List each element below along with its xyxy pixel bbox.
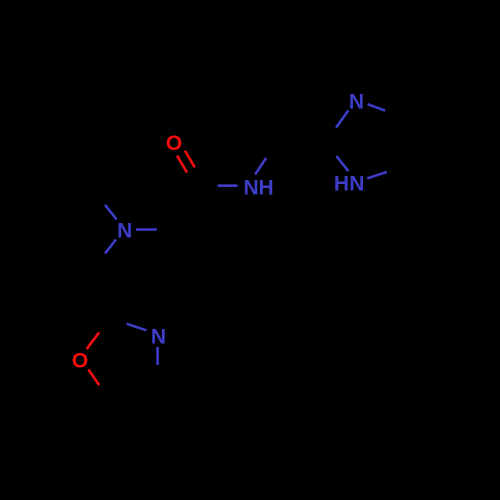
bond amide N - CH2 (blue half) bbox=[255, 158, 266, 175]
svg-text:N: N bbox=[349, 173, 364, 196]
svg-text:O: O bbox=[72, 349, 88, 372]
bond oxazoline O1 - C5 (red half) bbox=[88, 369, 99, 385]
bond imidazoline N1 - C2 (blue half) bbox=[336, 110, 348, 127]
svg-text:N: N bbox=[151, 326, 166, 349]
bond imidazoline N1 - C5 (blue half) bbox=[368, 104, 386, 110]
svg-text:H: H bbox=[334, 173, 349, 196]
svg-text:N: N bbox=[244, 177, 259, 200]
bond imidazoline N3 - C2 (blue half) bbox=[336, 156, 348, 171]
bond amine N - CH2 toward oxazoline (blue half) bbox=[105, 240, 116, 254]
svg-text:N: N bbox=[117, 220, 132, 243]
svg-text:N: N bbox=[349, 91, 364, 114]
bond amine N - methyl C (blue half) bbox=[105, 205, 117, 220]
bond oxazoline N3 - C2 (blue half) bbox=[127, 324, 147, 331]
svg-text:O: O bbox=[166, 132, 182, 155]
bond oxazoline N3 - C4 (blue half) bbox=[156, 347, 159, 365]
svg-text:H: H bbox=[259, 177, 274, 200]
bond oxazoline O1 - C2 (red half) bbox=[87, 332, 100, 349]
bond imidazoline N3 - C4 (blue half) bbox=[367, 172, 387, 178]
bond carbonyl C - amide N (blue half) bbox=[218, 184, 238, 187]
bond C=O second line (red half) bbox=[185, 151, 195, 168]
bond C=O main line (red half) bbox=[177, 156, 187, 173]
bond amine N - CH2 toward carbonyl (blue half) bbox=[136, 228, 157, 231]
